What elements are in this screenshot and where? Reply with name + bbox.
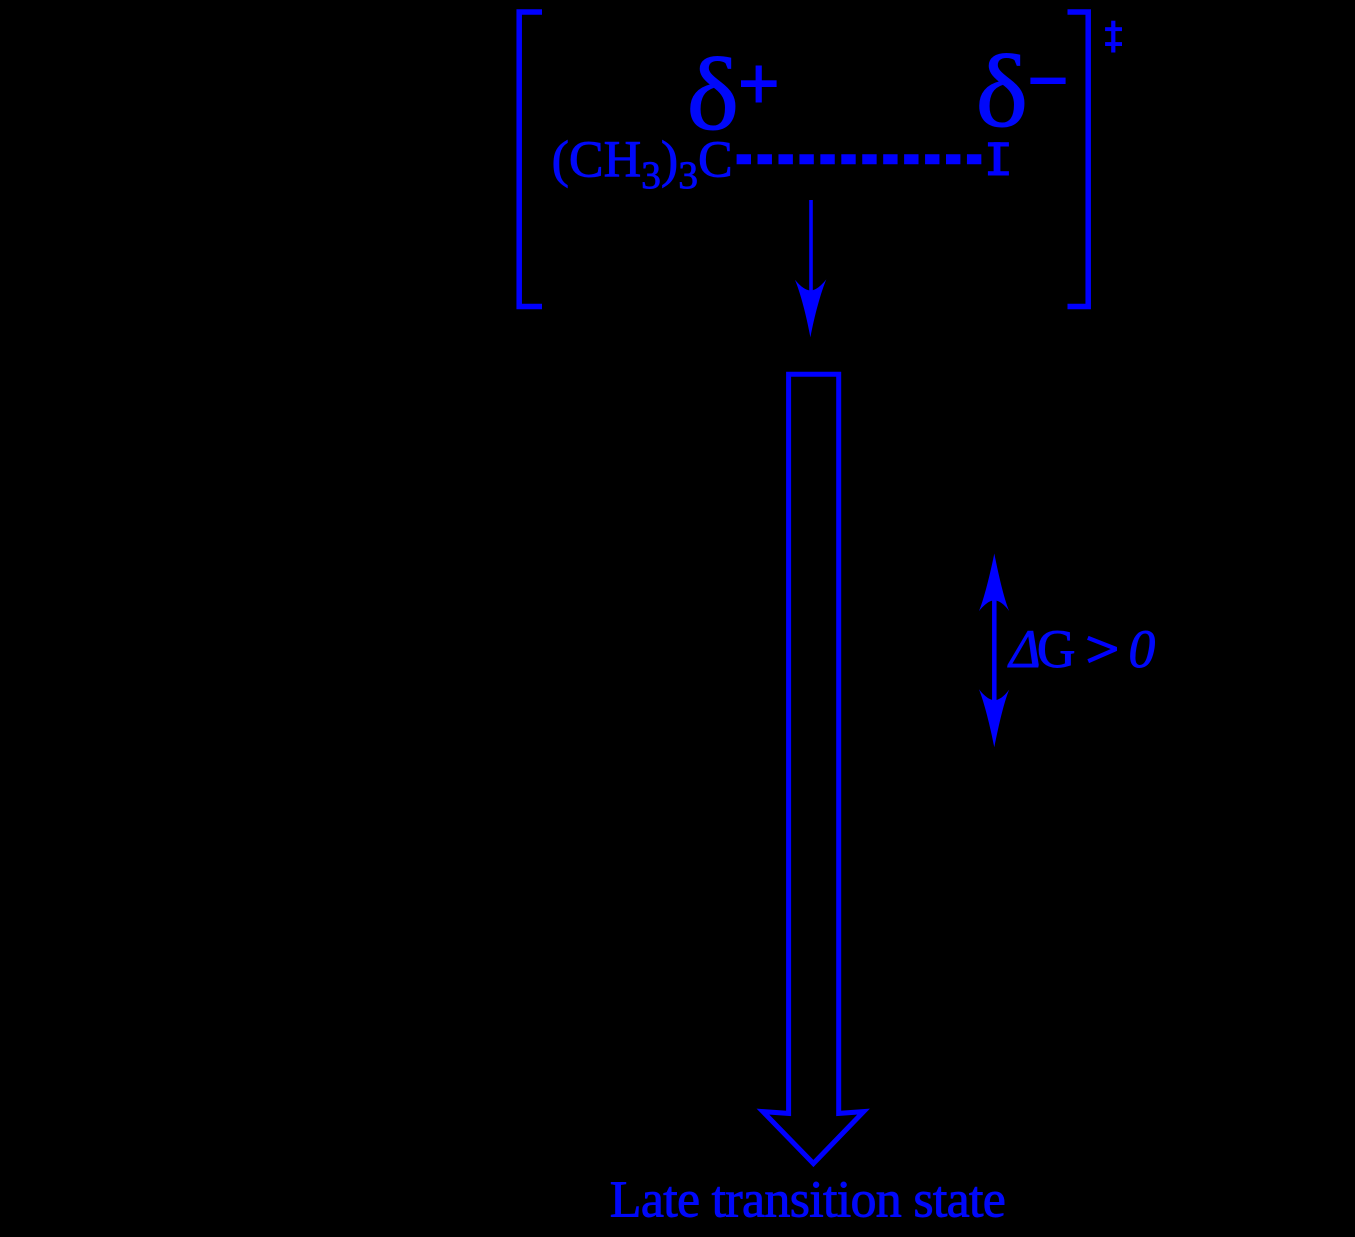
svg-text:0: 0 xyxy=(1129,619,1156,679)
minus sign bar xyxy=(1030,78,1065,84)
double-dagger upper crossbar xyxy=(1105,27,1122,31)
energy double-headed arrow shaft xyxy=(992,598,997,703)
big hollow reaction-progress arrow xyxy=(763,374,864,1163)
energy double-headed arrow top head xyxy=(979,554,1009,612)
small arrow head xyxy=(795,279,826,337)
double-dagger lower crossbar xyxy=(1105,42,1122,46)
svg-text:δ: δ xyxy=(976,35,1029,149)
iodine atom label I: stem xyxy=(994,142,1001,175)
left bracket of transition-state complex xyxy=(519,12,542,307)
svg-text:Late transition state: Late transition state xyxy=(610,1172,1005,1229)
plus sign vertical bar xyxy=(756,66,762,103)
iodine atom label I: top serif xyxy=(988,142,1009,146)
iodine atom label I: bottom serif xyxy=(988,171,1009,175)
right bracket of transition-state complex xyxy=(1068,12,1089,307)
energy double-headed arrow bottom head xyxy=(979,689,1009,747)
svg-text:Δ: Δ xyxy=(1007,619,1040,679)
svg-text:(CH3)3C: (CH3)3C xyxy=(552,132,733,197)
svg-text:G: G xyxy=(1037,619,1076,679)
greater-than sign xyxy=(1088,638,1116,661)
plus sign horizontal bar xyxy=(741,80,777,87)
partial C---I bond: dashed line xyxy=(737,154,982,164)
double-dagger (transition state symbol) vertical bar xyxy=(1111,21,1115,53)
small arrow shaft (bond breaking direction) xyxy=(809,200,813,291)
